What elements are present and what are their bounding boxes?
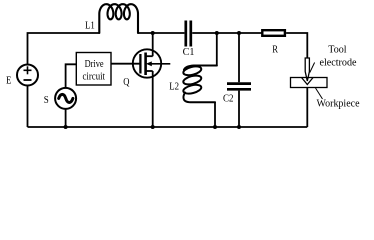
pointer line to electrode <box>310 63 315 73</box>
wire: C2 top from node <box>238 33 240 82</box>
voltage source E <box>17 65 38 86</box>
wire: workpiece bottom to bottom rail <box>306 88 308 128</box>
wire: Q source to bottom rail <box>152 71 154 127</box>
svg-text:Workpiece: Workpiece <box>317 99 361 110</box>
svg-text:electrode: electrode <box>320 58 358 69</box>
svg-text:S: S <box>44 95 49 106</box>
wire: S bottom to bottom rail <box>65 109 67 127</box>
wire: drain from top wire down into Q <box>152 33 154 56</box>
svg-text:Tool: Tool <box>328 44 347 55</box>
drive circuit box U1 <box>76 53 111 86</box>
wire: drive box to Q gate <box>111 63 140 65</box>
node: drain junction dot <box>151 31 155 35</box>
wire: left rail from E top up and top wire to L1 <box>28 33 100 64</box>
capacitor C1 <box>186 21 191 47</box>
wire: C2 bottom to bottom rail <box>238 91 240 127</box>
node: C1/L2 junction dot <box>215 31 219 35</box>
wire: C1 right plate to R left <box>192 32 262 34</box>
S sine wave <box>59 94 73 102</box>
wire: E bottom to bottom rail <box>27 86 29 128</box>
wire: bottom rail <box>28 126 308 128</box>
wire: L2 bottom right and down to bottom rail <box>214 102 216 128</box>
resistor R <box>262 30 285 36</box>
wire: L1 to C1 left plate <box>138 32 184 34</box>
E plus sign <box>24 66 32 74</box>
inductor L2 <box>182 65 216 103</box>
wire: C1/L2 node down and left to L2 top <box>216 33 218 66</box>
svg-text:R: R <box>272 45 278 56</box>
Q channel bar <box>144 53 147 76</box>
svg-text:Q: Q <box>123 77 130 88</box>
svg-text:circuit: circuit <box>83 72 106 83</box>
node: C2 bottom junction dot <box>237 125 241 129</box>
inductor L1 <box>99 4 138 33</box>
ac source S circle <box>55 88 76 109</box>
Q body line with arrow <box>148 63 170 65</box>
node: S bottom junction dot <box>64 125 68 129</box>
wire: R right to electrode top <box>286 33 307 58</box>
node: L2 bottom junction dot <box>213 125 217 129</box>
node: Q source bottom junction dot <box>151 125 155 129</box>
svg-text:C1: C1 <box>183 47 195 58</box>
Q source stub <box>146 70 153 72</box>
E minus sign <box>24 79 32 81</box>
Q gate bar <box>139 54 141 74</box>
svg-text:Drive: Drive <box>85 59 104 70</box>
pointer line to workpiece <box>316 88 323 99</box>
Q drain stub <box>146 55 153 57</box>
svg-text:L1: L1 <box>85 21 95 32</box>
svg-text:L2: L2 <box>169 81 179 92</box>
svg-text:E: E <box>6 76 11 87</box>
wire: S top to drive circuit box <box>66 64 77 88</box>
node: C2/R junction dot <box>237 31 241 35</box>
capacitor C2 <box>227 84 251 90</box>
svg-text:C2: C2 <box>223 94 234 105</box>
tool electrode symbol <box>305 58 309 81</box>
workpiece block <box>291 78 328 88</box>
transistor Q (MOSFET) circle <box>133 49 161 77</box>
